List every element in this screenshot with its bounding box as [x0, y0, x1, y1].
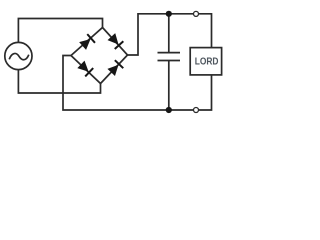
- svg-text:LORD: LORD: [195, 57, 219, 68]
- diode D3 (bottom-left arm, pointing to bottom vertex): [77, 60, 93, 76]
- wire: capacitor bottom plate to bottom rail: [168, 61, 170, 111]
- junction dot: bottom node: [166, 107, 172, 113]
- diode D1 (top-left arm, pointing to top vertex): [79, 34, 95, 50]
- wire: AC source bottom to bridge bottom vertex: [18, 68, 100, 93]
- junction dot: top node: [166, 11, 172, 17]
- diode D4 (bottom-right arm, pointing to right vertex): [107, 60, 123, 76]
- load box LORD: [190, 48, 221, 75]
- wire: top junction to capacitor top plate: [168, 14, 170, 53]
- wire: bridge right vertex via top rail to load top: [128, 14, 212, 55]
- diode D2 (top-right arm, pointing to right vertex): [107, 33, 123, 49]
- AC source V1: [5, 42, 32, 69]
- output terminal: bottom (open): [194, 108, 199, 113]
- wire: bridge left vertex via bottom rail to load bottom: [63, 56, 212, 111]
- filter capacitor C1 plates: [158, 53, 181, 61]
- bridge diamond outline: [71, 28, 128, 84]
- output terminal: top (open): [194, 11, 199, 16]
- wire: AC source top to bridge top vertex: [18, 19, 102, 45]
